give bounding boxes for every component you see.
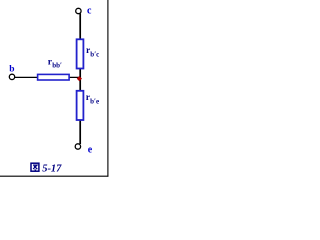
- svg-text:b′e: b′e: [90, 98, 99, 106]
- svg-text:bb′: bb′: [52, 61, 62, 69]
- wire r_b'e down to e terminal: [79, 120, 81, 145]
- caption glyph 图 (drawn): [31, 163, 39, 171]
- terminal b (open circle): [9, 74, 14, 79]
- resistor r_b'e (vertical body): [77, 91, 84, 120]
- svg-text:c: c: [87, 5, 92, 16]
- svg-text:5-17: 5-17: [42, 163, 62, 174]
- resistor r_bb' (horizontal body): [38, 74, 70, 80]
- svg-text:e: e: [88, 144, 93, 155]
- wire c terminal down to r_b'c: [79, 14, 81, 41]
- wire b terminal to node b' (horizontal): [15, 76, 81, 78]
- node b' junction dot: [77, 76, 82, 81]
- resistor r_b'c (vertical body): [77, 39, 84, 68]
- terminal c (open circle): [76, 8, 81, 13]
- border bottom line: [0, 175, 108, 177]
- terminal e (open circle): [75, 144, 80, 149]
- wire r_b'c to r_b'e through node b': [79, 68, 81, 91]
- svg-text:b: b: [9, 64, 14, 74]
- border right line: [107, 0, 109, 177]
- svg-text:b′c: b′c: [90, 51, 99, 59]
